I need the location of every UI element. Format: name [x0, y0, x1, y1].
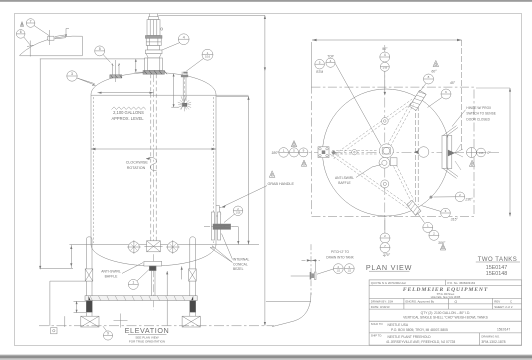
- balloon 3 (dome): [67, 71, 96, 86]
- balloon 1/16 outlet: [224, 206, 243, 223]
- under-dish outlet: [144, 261, 162, 270]
- top page edge strip: [0, 0, 532, 2]
- svg-text:230°: 230°: [464, 197, 473, 201]
- svg-text:APPROX. LEVEL: APPROX. LEVEL: [111, 116, 144, 121]
- svg-text:GRAB HANDLE: GRAB HANDLE: [268, 182, 295, 186]
- foot pads: [81, 316, 201, 327]
- right spray nozzle: [181, 72, 188, 78]
- motor cap: [149, 17, 159, 20]
- svg-text:SOLD TO:: SOLD TO:: [371, 322, 384, 326]
- balloon D1: [26, 19, 49, 36]
- text 2100 gallons level: [111, 110, 144, 121]
- svg-text:45°: 45°: [450, 81, 456, 85]
- weld arrow on chord: [414, 150, 419, 154]
- svg-text:0°: 0°: [487, 151, 491, 155]
- drain lines: [291, 275, 310, 277]
- svg-text:4: 4: [183, 35, 185, 39]
- legs: [85, 237, 196, 316]
- motor flange band: [145, 36, 162, 39]
- inner dashed shell lines: [94, 97, 214, 243]
- svg-text:SHIP TO:: SHIP TO:: [371, 334, 383, 338]
- tank circle: [323, 89, 450, 216]
- svg-text:DOOR CLOSED: DOOR CLOSED: [466, 117, 490, 121]
- svg-text:DRAIN INTO TANK: DRAIN INTO TANK: [326, 255, 354, 259]
- baffle long diagonal upper: [332, 99, 414, 159]
- ANTI-SWIRL BAFFLE label (elevation): [101, 269, 121, 278]
- svg-text:DRAWING NO.: DRAWING NO.: [481, 334, 500, 338]
- square outline dash-dot: [311, 87, 474, 216]
- right leg: [190, 237, 196, 316]
- balloon group: TOP/BTM: [315, 55, 335, 74]
- balloon 4 (motor): [162, 34, 190, 50]
- svg-text:90°: 90°: [382, 47, 388, 51]
- plan centerline horizontal: [279, 151, 500, 153]
- svg-text:15E0148: 15E0148: [486, 271, 508, 277]
- balloon group: 90 deg top: [380, 47, 390, 71]
- svg-text:P.O. BOX 5805; TROY, MI 4800: P.O. BOX 5805; TROY, MI 48007-5805: [391, 328, 448, 332]
- svg-text:6: 6: [20, 30, 22, 34]
- mounting flange: [143, 71, 164, 75]
- svg-text:O: O: [455, 300, 458, 304]
- pitch dim marker: [302, 259, 321, 271]
- GRAB HANDLE label: [222, 182, 295, 208]
- svg-text:3: 3: [71, 72, 73, 76]
- spray ball: [178, 96, 191, 111]
- svg-text:1/16: 1/16: [479, 152, 484, 155]
- svg-text:Little Falls, New York 13365: Little Falls, New York 13365: [431, 296, 461, 299]
- floor line: [39, 325, 274, 327]
- svg-text:3FM-1302-1878: 3FM-1302-1878: [481, 340, 505, 344]
- top inner nozzle: [381, 118, 388, 125]
- svg-text:1/16: 1/16: [205, 55, 211, 59]
- dim below outlet: [166, 266, 183, 325]
- detail dome segment curve: [20, 36, 83, 55]
- svg-text:DRAWN BY: JSH: DRAWN BY: JSH: [371, 300, 393, 304]
- svg-text:QTY (2): 2100 GALLON – 80″ I.: QTY (2): 2100 GALLON – 80″ I.D.: [421, 311, 471, 315]
- top dished head: [91, 73, 216, 95]
- warning triangle grab: [269, 171, 275, 178]
- svg-text:1/16: 1/16: [236, 212, 241, 215]
- svg-text:2,100 GALLONS: 2,100 GALLONS: [113, 110, 144, 115]
- svg-text:P.O. No. 4508433163: P.O. No. 4508433163: [448, 281, 476, 285]
- dome radius dim: [98, 92, 154, 94]
- leader 306 balloons: [417, 213, 425, 223]
- svg-text:ELEVATION: ELEVATION: [125, 326, 170, 335]
- svg-text:BAFFLE: BAFFLE: [105, 274, 119, 278]
- bottom tangent extension line: [69, 244, 259, 246]
- balloon group: 270 deg bottom: [380, 233, 391, 257]
- balloon group: 180 deg left: [271, 141, 308, 167]
- bottom dished head: [91, 245, 216, 266]
- eyebolts: [148, 14, 150, 17]
- svg-text:FELDMEIER EQUIPMENT: FELDMEIER EQUIPMENT: [403, 287, 488, 293]
- center line of tank: [153, 74, 155, 310]
- detail box right/bottom outline: [20, 36, 83, 56]
- baffle arm left (center to 180 nozzle): [332, 151, 378, 154]
- left 180 nozzle square: [318, 147, 329, 158]
- grab handle on right wall: [216, 206, 221, 217]
- chord bottom flange: [407, 200, 421, 215]
- plate: [145, 50, 162, 54]
- balloon D2: [16, 30, 30, 45]
- agitator shaft (dashed): [151, 74, 156, 250]
- svg-text:HINGE W/ PROX: HINGE W/ PROX: [466, 106, 492, 110]
- svg-text:DATE: 3/19/13: DATE: 3/19/13: [371, 305, 390, 309]
- svg-text:41 JERSEYVILLE AVE; FREEHOLD,: 41 JERSEYVILLE AVE; FREEHOLD, NJ 07728: [386, 340, 455, 344]
- balloon bottom outlet: [128, 270, 149, 290]
- svg-text:NESTLE USA: NESTLE USA: [388, 323, 409, 327]
- outlet drop dim: [231, 227, 238, 245]
- bottom inner nozzle: [381, 180, 389, 188]
- svg-text:QUOTE N G 20702902.dwr: QUOTE N G 20702902.dwr: [371, 281, 406, 285]
- baffle arm to bottom flange: [390, 158, 414, 201]
- left overall dims: [39, 59, 73, 269]
- center drop pipe: [152, 271, 155, 296]
- top width dimension: [311, 39, 461, 150]
- svg-text:SWITCH TO SENSE: SWITCH TO SENSE: [466, 112, 495, 116]
- baffle long diagonal lower: [330, 152, 410, 209]
- baffle arm to 60 flange: [388, 103, 414, 146]
- svg-text:FOR TRUE ORIENTATION: FOR TRUE ORIENTATION: [129, 339, 165, 343]
- svg-text:REV: REV: [494, 300, 500, 304]
- small circle left of center: [352, 150, 357, 155]
- tiny circle vent: [160, 28, 162, 30]
- weir chord dashed: [415, 99, 418, 205]
- drain pipe: [272, 244, 311, 326]
- balloon group: 230 deg: [455, 192, 473, 202]
- ANTI-SWIRL label plan: [335, 176, 354, 185]
- plan centerline vertical: [384, 45, 386, 257]
- center hub: [379, 144, 397, 168]
- svg-text:9: 9: [107, 332, 109, 336]
- right manway circle: [418, 147, 429, 158]
- balloon near elevation title: [103, 326, 113, 340]
- hinge door assembly: [442, 126, 463, 179]
- left foot dims: [50, 281, 86, 327]
- bottom nozzle circle left: [127, 240, 141, 254]
- spray ball depth dim: [171, 74, 178, 108]
- gearbox: [146, 38, 161, 45]
- svg-text:5: 5: [99, 47, 101, 51]
- left leg: [86, 237, 92, 316]
- tank shell: [91, 94, 216, 244]
- balloon 5: [95, 46, 111, 63]
- svg-text:4: 4: [384, 53, 386, 57]
- side outlet assembly: [204, 212, 233, 240]
- leader 230 balloon: [434, 196, 456, 198]
- balloon group: 45 deg: [441, 81, 456, 99]
- svg-text:ANTI-SWIRL: ANTI-SWIRL: [101, 269, 121, 273]
- leader 315 balloon: [422, 206, 442, 212]
- svg-text:BTM: BTM: [316, 70, 323, 74]
- datum target box: [51, 328, 57, 334]
- svg-text:ROTATION: ROTATION: [127, 166, 146, 170]
- warning triangle A1: [20, 22, 23, 27]
- leader 45 balloon: [428, 97, 443, 108]
- balloon group: 0 deg right: [467, 148, 492, 167]
- ELEVATION title: [125, 326, 170, 343]
- agitator motor assembly: [143, 14, 167, 75]
- svg-text:VERTICAL SINGLE SHELL “CHD” WE: VERTICAL SINGLE SHELL “CHD” WEIGH BOWL T…: [403, 315, 488, 319]
- leader internal conical: [210, 246, 233, 263]
- svg-text:PITCH 2′ TO: PITCH 2′ TO: [331, 250, 350, 254]
- svg-text:ENGRG. Approved By: ENGRG. Approved By: [406, 300, 435, 304]
- balloon group: 306 deg: [423, 222, 446, 250]
- HINGE text: [466, 106, 495, 122]
- bottom page shadow bar: [0, 355, 532, 356]
- svg-text:306°: 306°: [438, 241, 446, 245]
- balloon 1/16 (spray): [187, 49, 214, 71]
- right height dimension: [476, 88, 511, 216]
- balloon group: 60 deg: [424, 60, 439, 84]
- svg-text:60°: 60°: [431, 70, 437, 74]
- svg-text:SHEET: 2 of 2: SHEET: 2 of 2: [494, 305, 513, 309]
- svg-text:BEZEL: BEZEL: [233, 267, 244, 271]
- svg-text:NESTLE PLANT FREEHOLD: NESTLE PLANT FREEHOLD: [388, 335, 432, 339]
- top tangent line: [91, 94, 249, 96]
- pitch balloons: [317, 264, 354, 275]
- drain valve fitting: [310, 272, 316, 280]
- diamond marker left: [331, 150, 336, 155]
- svg-text:CLOCKWISE: CLOCKWISE: [126, 160, 149, 164]
- svg-text:180°: 180°: [271, 151, 279, 155]
- dim riser at x124 foot: [114, 314, 128, 328]
- svg-text:INTERNAL: INTERNAL: [233, 258, 249, 262]
- balloon group: 315 deg: [441, 208, 459, 221]
- level squiggle: [112, 107, 146, 110]
- svg-text:15E0147: 15E0147: [497, 327, 510, 331]
- clockwise rotation note: [126, 160, 149, 170]
- leader 60 balloon: [419, 84, 426, 93]
- chord top flange (60 deg): [409, 90, 426, 110]
- detail tick nozzle: [27, 41, 34, 57]
- PLAN VIEW title: [366, 263, 412, 272]
- ID dimension arrows: [91, 148, 216, 150]
- svg-text:270°: 270°: [382, 253, 391, 257]
- cross brace bar: [85, 296, 197, 301]
- left top nozzle N5: [110, 60, 122, 82]
- INTERNAL CONICAL label: [233, 258, 249, 271]
- pedestal: [145, 58, 163, 71]
- rotation arrow: [146, 158, 157, 171]
- right dims of elevation: [158, 15, 266, 325]
- svg-text:7: 7: [30, 19, 32, 23]
- detail nozzle fitting: [48, 30, 66, 45]
- svg-text:BAFFLE: BAFFLE: [338, 181, 351, 185]
- leader 270 balloons: [384, 218, 386, 233]
- detail dimension corner: [66, 29, 69, 36]
- svg-text:C: C: [510, 300, 512, 304]
- svg-text:CONICAL: CONICAL: [233, 262, 248, 266]
- bottom nozzle circle right: [166, 240, 180, 254]
- PITCH text: [326, 250, 354, 259]
- leader 90 balloons down: [384, 71, 386, 95]
- svg-text:1: 1: [132, 281, 134, 285]
- svg-text:315°: 315°: [451, 217, 459, 221]
- neck: [148, 46, 160, 51]
- taper: [146, 54, 161, 58]
- svg-text:PLAN VIEW: PLAN VIEW: [366, 263, 412, 272]
- dim nozzle height: [40, 59, 145, 72]
- svg-text:ANTI-SWIRL: ANTI-SWIRL: [335, 176, 354, 180]
- diamond marker bottom right: [429, 195, 433, 199]
- motor body: [147, 20, 160, 36]
- spray dip tube: [183, 77, 186, 101]
- bottom center fitting: [144, 241, 162, 252]
- svg-text:1/16: 1/16: [382, 66, 387, 69]
- leader TOP balloon to hub: [335, 64, 381, 146]
